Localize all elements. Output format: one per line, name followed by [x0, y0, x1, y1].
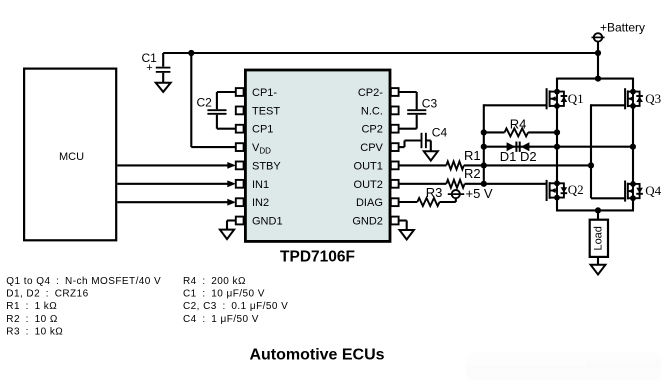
svg-text:N.C.: N.C.	[361, 105, 383, 117]
svg-text:R4: R4	[510, 116, 527, 131]
svg-text:Load: Load	[593, 226, 605, 250]
svg-text:Q3: Q3	[645, 91, 661, 106]
svg-text:R2 : 10 Ω: R2 : 10 Ω	[6, 314, 58, 325]
svg-text:Q4: Q4	[645, 183, 661, 198]
svg-text:TEST: TEST	[252, 105, 280, 117]
svg-text:CPV: CPV	[360, 142, 383, 154]
svg-text:D1, D2 : CRZ16: D1, D2 : CRZ16	[6, 289, 88, 300]
svg-text:CP2: CP2	[361, 124, 382, 136]
svg-text:+Battery: +Battery	[600, 21, 645, 35]
svg-text:D1 D2: D1 D2	[500, 149, 537, 164]
svg-text:IN2: IN2	[252, 197, 269, 209]
svg-text:CP2-: CP2-	[358, 87, 383, 99]
svg-text:C4 : 1 μF/50 V: C4 : 1 μF/50 V	[183, 314, 259, 325]
svg-text:C1 : 10 μF/50 V: C1 : 10 μF/50 V	[183, 289, 265, 300]
svg-text:C3: C3	[422, 97, 438, 111]
svg-text:TPD7106F: TPD7106F	[280, 248, 355, 265]
svg-text:CP1-: CP1-	[252, 87, 277, 99]
svg-text:R4 : 200 kΩ: R4 : 200 kΩ	[183, 276, 246, 287]
svg-text:Q1 to Q4 : N-ch MOSFET/40 V: Q1 to Q4 : N-ch MOSFET/40 V	[6, 276, 161, 287]
svg-text:OUT1: OUT1	[354, 160, 383, 172]
svg-text:Q2: Q2	[568, 182, 584, 197]
svg-text:R3: R3	[426, 185, 443, 200]
svg-text:DIAG: DIAG	[356, 197, 383, 209]
svg-text:R2: R2	[464, 166, 481, 181]
svg-text:CP1: CP1	[252, 124, 273, 136]
svg-text:C4: C4	[432, 125, 448, 139]
svg-text:IN1: IN1	[252, 179, 269, 191]
svg-text:OUT2: OUT2	[354, 179, 383, 191]
svg-text:C2: C2	[197, 96, 213, 110]
svg-text:MCU: MCU	[59, 151, 84, 163]
svg-text:Q1: Q1	[568, 91, 584, 106]
svg-text:GND1: GND1	[252, 216, 283, 228]
svg-text:+: +	[146, 62, 152, 74]
svg-text:Automotive ECUs: Automotive ECUs	[249, 347, 384, 364]
svg-text:+5 V: +5 V	[466, 186, 493, 201]
svg-text:R1: R1	[464, 148, 481, 163]
svg-text:STBY: STBY	[252, 160, 281, 172]
svg-text:C2, C3 : 0.1 μF/50 V: C2, C3 : 0.1 μF/50 V	[183, 301, 288, 312]
svg-text:R1 : 1 kΩ: R1 : 1 kΩ	[6, 301, 57, 312]
svg-text:GND2: GND2	[352, 216, 383, 228]
svg-text:R3 : 10 kΩ: R3 : 10 kΩ	[6, 326, 63, 337]
